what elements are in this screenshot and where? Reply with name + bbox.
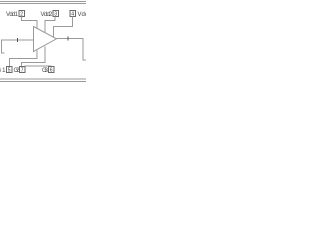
wire Vdd2 to op-amp top: [45, 17, 55, 34]
pin tick output: [67, 37, 69, 41]
svg-text:Vdd2: Vdd2: [41, 12, 54, 18]
svg-text:Vdd: Vdd: [78, 12, 87, 18]
pin 3: [53, 11, 59, 18]
svg-text:Vdd1: Vdd1: [6, 12, 19, 18]
svg-text:5: 5: [8, 68, 11, 74]
wire input left: [2, 40, 34, 53]
wire op-amp bottom to pin 5: [10, 50, 38, 66]
svg-text:G3: G3: [42, 68, 49, 74]
svg-text:G1: G1: [0, 68, 6, 74]
pin 7: [20, 67, 26, 74]
wire output: [57, 39, 87, 61]
svg-text:6: 6: [50, 68, 53, 74]
svg-text:7: 7: [21, 68, 24, 74]
wire op-amp bottom to pin 7: [22, 46, 46, 66]
pin 6: [49, 67, 55, 74]
wire Vdd1 to op-amp top: [22, 17, 38, 29]
pin 4: [70, 11, 76, 18]
wire pin4 to op-amp top edge: [54, 17, 73, 38]
op-amp U1: [34, 27, 57, 52]
pin 2: [19, 11, 25, 18]
pin tick input: [17, 38, 19, 42]
pin 5: [7, 67, 13, 74]
wire to pin 6: [25, 65, 52, 68]
